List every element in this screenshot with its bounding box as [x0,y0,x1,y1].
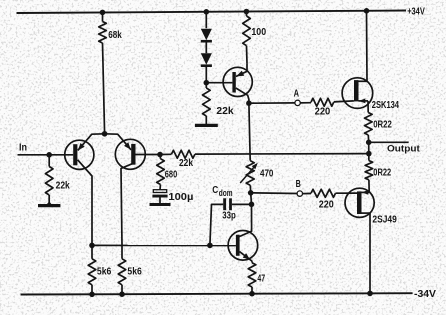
svg-text:0R22: 0R22 [373,120,392,131]
svg-text:33p: 33p [222,210,236,221]
svg-text:5k6: 5k6 [127,267,142,278]
svg-text:100µ: 100µ [168,192,193,203]
svg-text:68k: 68k [108,30,122,41]
svg-text:2SK134: 2SK134 [372,100,400,111]
svg-text:220: 220 [315,107,331,118]
svg-text:470: 470 [260,169,274,180]
svg-text:A: A [294,88,299,99]
svg-text:47: 47 [257,273,265,284]
svg-text:22k: 22k [56,180,71,191]
svg-text:100: 100 [251,27,266,38]
svg-text:5k6: 5k6 [97,267,112,278]
svg-text:2SJ49: 2SJ49 [372,214,397,225]
svg-text:0R22: 0R22 [373,168,391,179]
svg-text:220: 220 [319,199,334,210]
svg-text:Output: Output [387,143,421,154]
svg-text:B: B [296,179,301,190]
svg-text:+34V: +34V [407,7,425,18]
svg-text:In: In [19,142,27,153]
svg-text:22k: 22k [179,158,193,169]
svg-text:-34V: -34V [414,289,436,300]
svg-text:22k: 22k [216,106,234,117]
svg-text:dom: dom [219,188,233,198]
svg-text:680: 680 [165,169,178,180]
svg-text:C: C [212,184,218,196]
